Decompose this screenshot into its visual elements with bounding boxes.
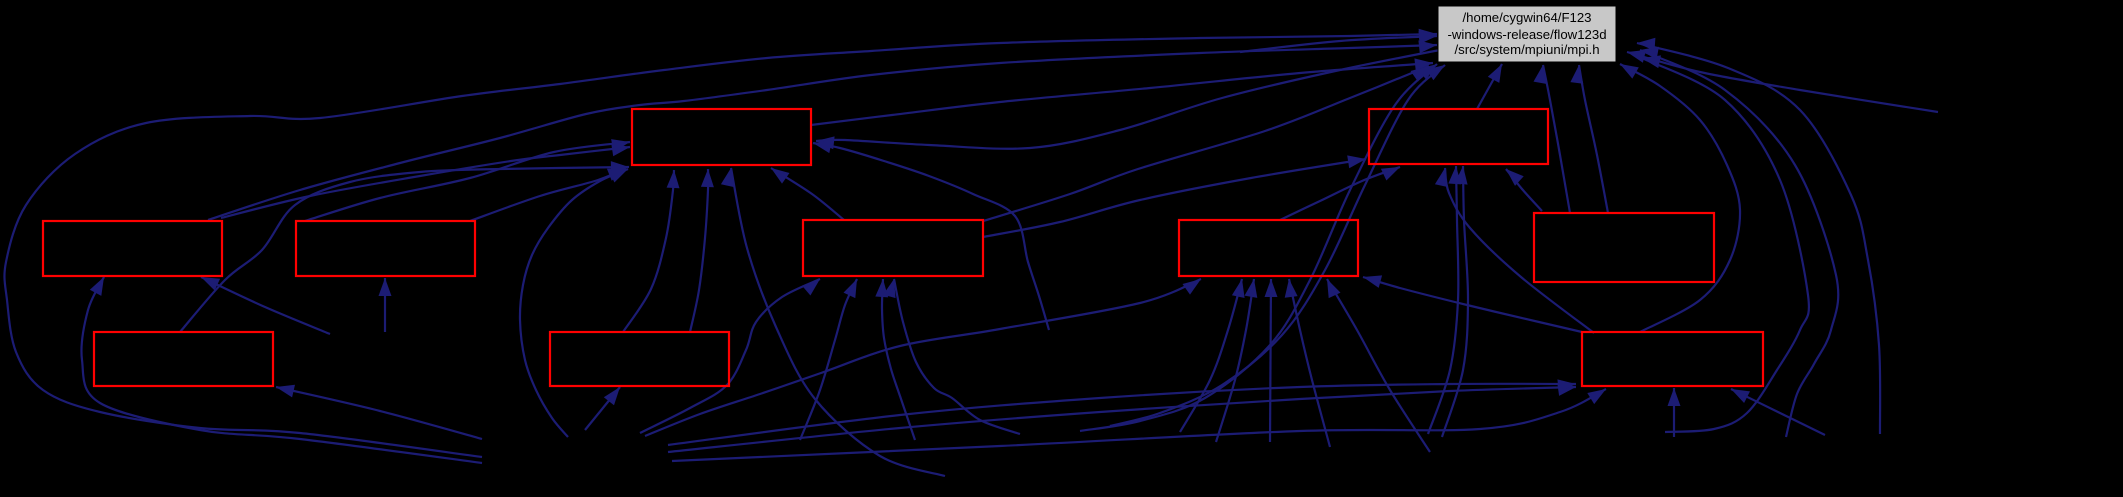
- svg-text:/src/system/mpiuni/mpi.h: /src/system/mpiuni/mpi.h: [1454, 42, 1599, 57]
- svg-text:-windows-release/flow123d: -windows-release/flow123d: [1447, 27, 1606, 42]
- svg-text:/home/cygwin64/F123: /home/cygwin64/F123: [1462, 10, 1591, 25]
